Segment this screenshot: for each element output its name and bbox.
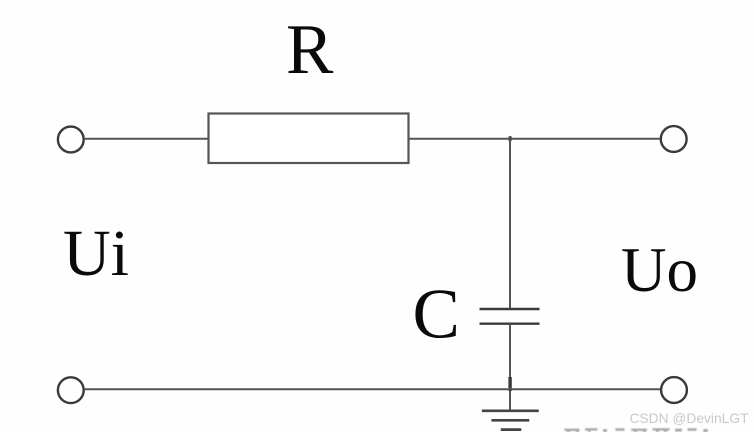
svg-text:Ui: Ui [63,217,129,290]
node: bottom-left terminal [58,377,84,403]
svg-text:CSDN @DevinLGT: CSDN @DevinLGT [629,411,749,426]
wire: junction down to capacitor top plate [509,139,511,310]
svg-text:C: C [413,276,460,354]
wire: input terminal to resistor [84,138,209,140]
node Ui input terminal (top-left) [58,127,84,153]
wire: resistor to output terminal (passes node) [409,138,662,140]
capacitor C bottom plate [480,323,540,325]
capacitor C top plate [480,308,540,310]
junction: vertical wire crossing bottom wire [508,377,511,391]
ground bar 1 [482,409,539,412]
node: bottom-right terminal [661,377,687,403]
ground bar 3 [501,428,522,431]
node: top junction [509,136,512,141]
wire: bottom rail [84,388,662,390]
partial clipped text line at bottom [565,428,708,432]
svg-text:R: R [286,11,334,89]
resistor R [209,114,409,164]
svg-text:Uo: Uo [621,235,698,305]
wire: capacitor bottom plate down to ground [509,324,511,411]
node Uo output terminal (top-right) [661,126,687,152]
ground bar 2 [491,419,529,422]
